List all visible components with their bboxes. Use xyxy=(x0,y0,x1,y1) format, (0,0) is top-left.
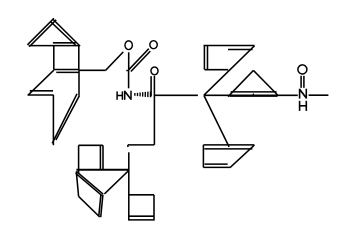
bottom-right rect top bond xyxy=(129,194,154,196)
bottom ring long horizontal bond xyxy=(76,169,128,171)
amide N=O double bond xyxy=(301,76,304,88)
atom label O1 ester xyxy=(125,41,132,50)
carbamate C=O double bond xyxy=(129,49,151,72)
chain horizontal bond left xyxy=(128,144,154,146)
Z-ring top inner bond xyxy=(228,49,253,51)
trapezoid top bond xyxy=(203,144,254,146)
fluorene hexagon left vertical bond xyxy=(52,95,54,145)
trapezoid top inner bond xyxy=(204,148,252,150)
chain hook tick xyxy=(127,145,129,147)
fluorene right vertical bond xyxy=(78,45,80,71)
atom label O4 right xyxy=(298,65,307,74)
fluorene hexagon left double bond xyxy=(28,91,54,95)
trapezoid bottom inner bond xyxy=(205,163,228,165)
triangle ring right bond xyxy=(253,70,277,95)
bond J1 to trapezoid ring xyxy=(204,95,229,146)
Z-ring long diagonal bond xyxy=(204,46,255,95)
triangle ring base bond xyxy=(230,95,278,97)
kite right double bond xyxy=(99,194,103,217)
bottom rect top bond xyxy=(79,144,103,146)
Z-ring left double vertical bond xyxy=(204,46,207,70)
trapezoid bottom bond xyxy=(203,166,230,168)
kite left bond xyxy=(76,172,78,197)
atom label H of HN xyxy=(117,91,124,99)
fluorene hexagon bottom double bond xyxy=(52,94,79,144)
trapezoid right diagonal bond xyxy=(230,145,254,167)
triangle ring dot xyxy=(253,94,254,95)
Z-ring top bond xyxy=(204,45,255,47)
bond N to methyl xyxy=(309,94,329,96)
Z-ring middle horizontal bond xyxy=(205,69,229,71)
bond C9 to CH2 xyxy=(79,69,106,71)
fluorene left vertical bond xyxy=(53,46,55,70)
trapezoid left bond xyxy=(202,145,204,168)
atom label O3 amide xyxy=(151,67,158,75)
fluorene hexagon upper-left diagonal bond xyxy=(28,70,54,95)
bottom rect left bond xyxy=(78,145,80,173)
bottom ring right diagonal bond xyxy=(104,171,128,194)
atom label N right xyxy=(300,89,307,99)
fluorene top ring left double bond xyxy=(27,18,56,46)
bond carbamate C to N xyxy=(128,71,130,89)
fluorene top ring right double bond xyxy=(51,19,81,46)
bottom rect double vertical bond xyxy=(100,145,103,169)
carbamate C junction tick xyxy=(126,70,129,72)
triangle ring inner bond xyxy=(231,91,277,93)
hashed wedge bond N to alpha C xyxy=(134,91,151,97)
alpha chain horizontal bond xyxy=(154,94,198,96)
atom label N of HN xyxy=(125,91,131,100)
atom label O2 carbonyl xyxy=(150,41,157,49)
fluorene top ring inner bond xyxy=(53,42,76,44)
atom label H right xyxy=(299,101,307,111)
amide C=O double bond partner line xyxy=(150,76,152,96)
bottom-right rect right bond xyxy=(153,195,155,221)
bond O1 to carbamate C xyxy=(128,52,130,70)
fluorene hexagon top double bond xyxy=(54,70,79,73)
triangle ring left bond xyxy=(228,70,253,96)
fluorene hexagon right vertical bond xyxy=(78,70,80,95)
fluorene top ring base bond xyxy=(29,45,79,47)
kite bottom bond xyxy=(79,196,100,217)
alpha chain vertical bond xyxy=(153,76,155,145)
chain vertical bond to bottom ring xyxy=(128,152,130,220)
bottom ring left double diagonal bond xyxy=(76,171,104,195)
bottom-right rect bottom double bond xyxy=(129,216,154,220)
chain horizontal bond J1 to N-H amide xyxy=(204,94,298,96)
bond CH2 to O1 xyxy=(106,52,124,70)
